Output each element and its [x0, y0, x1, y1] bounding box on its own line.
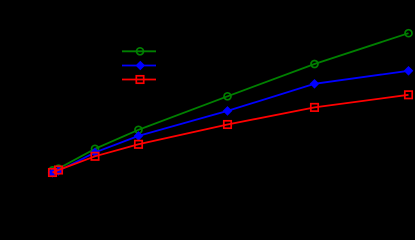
red series markers (hollow squares)	[49, 91, 412, 176]
blue series markers (filled diamonds)	[48, 66, 414, 178]
legend sample: blue line with diamond	[122, 61, 156, 71]
green series markers (hollow circles)	[49, 30, 412, 174]
legend sample: green line with circle	[122, 48, 156, 55]
red series line	[53, 95, 409, 173]
green series line	[53, 33, 409, 170]
legend sample: red line with square	[122, 76, 156, 83]
blue series line	[53, 71, 409, 173]
